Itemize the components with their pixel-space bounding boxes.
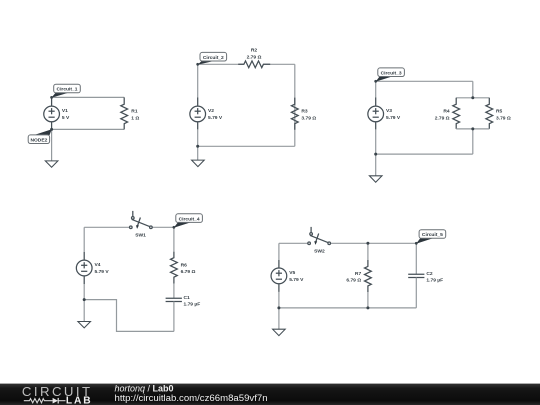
svg-text:Circuit_5: Circuit_5 bbox=[422, 232, 443, 238]
svg-text:NODE2: NODE2 bbox=[30, 137, 47, 143]
resistor R1 bbox=[121, 97, 128, 129]
resistor R5 bbox=[486, 98, 493, 129]
wire top rail circuit 3 bbox=[376, 80, 473, 82]
node junction circuit4 top-right bbox=[173, 226, 176, 229]
C2 value label bbox=[426, 271, 443, 284]
V4 value label bbox=[95, 262, 110, 275]
wire C2 branch top circuit 5 bbox=[415, 243, 417, 274]
resistor R2 bbox=[238, 61, 270, 68]
node junction circuit5 bottom-left bbox=[277, 306, 280, 309]
svg-text:C2: C2 bbox=[426, 271, 433, 277]
SW1 label bbox=[135, 233, 146, 239]
ground circuit 1 bbox=[45, 129, 58, 167]
V3 value label bbox=[386, 108, 401, 121]
wire parallel top bar circuit 3 bbox=[456, 97, 489, 99]
svg-text:V1: V1 bbox=[62, 108, 68, 114]
svg-text:5 V: 5 V bbox=[62, 115, 70, 121]
node junction parallel top bbox=[471, 96, 474, 99]
capacitor C2 bbox=[408, 274, 424, 277]
svg-text:Circuit_3: Circuit_3 bbox=[381, 70, 402, 76]
node junction circuit3 top-left bbox=[374, 80, 377, 83]
svg-text:R4: R4 bbox=[443, 109, 450, 115]
CircuitLab logo schematic line with resistor and diode bbox=[24, 398, 66, 404]
voltage source V4 bbox=[76, 252, 92, 284]
voltage source V2 bbox=[190, 97, 206, 129]
switch SW1 bbox=[130, 211, 153, 229]
svg-text:V3: V3 bbox=[386, 108, 392, 114]
svg-text:3.79 Ω: 3.79 Ω bbox=[301, 116, 316, 122]
wire drop to parallel block circuit 3 bbox=[472, 81, 474, 98]
resistor R6 bbox=[171, 252, 178, 284]
node A junction circuit1 top bbox=[50, 96, 53, 99]
R2 value label bbox=[247, 47, 262, 60]
CircuitLab logo LAB text bbox=[66, 396, 93, 405]
ground circuit 2 bbox=[192, 146, 205, 166]
svg-text:SW2: SW2 bbox=[314, 249, 325, 255]
wire bottom route circuit 4 bbox=[84, 300, 174, 332]
svg-text:R5: R5 bbox=[496, 109, 503, 115]
svg-text:Circuit_4: Circuit_4 bbox=[179, 216, 200, 222]
node NODE2 junction dot bbox=[50, 128, 53, 131]
svg-text:6.79 Ω: 6.79 Ω bbox=[181, 269, 196, 275]
svg-text:V5: V5 bbox=[289, 270, 295, 276]
node flag Circuit_4 bbox=[174, 214, 203, 228]
wire left side circuit 3 bbox=[375, 81, 377, 154]
node flag Circuit_3 bbox=[376, 68, 405, 82]
wire top rail circuit 5 right bbox=[331, 242, 417, 244]
wire parallel block down circuit 3 bbox=[472, 129, 474, 154]
wire right branch circuit 4 bbox=[173, 227, 175, 251]
wire parallel bottom bar circuit 3 bbox=[456, 128, 489, 130]
wire bottom rail circuit 5 bbox=[279, 307, 416, 309]
svg-text:2.79 Ω: 2.79 Ω bbox=[247, 54, 262, 60]
footer url bbox=[115, 393, 268, 404]
resistor R4 bbox=[453, 98, 460, 129]
voltage source V5 bbox=[271, 260, 287, 292]
wire right side circuit 2 bbox=[294, 64, 296, 146]
svg-text:5.79 V: 5.79 V bbox=[95, 269, 110, 275]
svg-text:V2: V2 bbox=[208, 108, 214, 114]
svg-text:http://circuitlab.com/cz66m8a5: http://circuitlab.com/cz66m8a59vf7n bbox=[115, 393, 268, 404]
ground circuit 3 bbox=[369, 154, 382, 182]
svg-text:SW1: SW1 bbox=[135, 233, 146, 239]
node junction circuit5 top-right bbox=[415, 242, 418, 245]
wire bottom rail circuit 1 bbox=[52, 128, 125, 130]
svg-text:2.79 Ω: 2.79 Ω bbox=[435, 116, 450, 122]
node junction R7 top bbox=[366, 242, 369, 245]
svg-text:R2: R2 bbox=[251, 47, 258, 53]
node junction parallel bottom bbox=[471, 127, 474, 130]
svg-text:5.79 V: 5.79 V bbox=[208, 115, 223, 121]
SW2 label bbox=[314, 249, 325, 255]
node junction circuit3 bottom-left bbox=[374, 153, 377, 156]
node flag Circuit_2 bbox=[198, 52, 227, 64]
R3 value label bbox=[301, 109, 316, 122]
svg-text:1 Ω: 1 Ω bbox=[131, 116, 139, 122]
R6 value label bbox=[181, 262, 196, 275]
V5 value label bbox=[289, 270, 304, 283]
wire top rail circuit 4 left bbox=[84, 226, 129, 228]
svg-text:Circuit_2: Circuit_2 bbox=[203, 55, 224, 61]
CircuitLab logo wordmark bbox=[22, 384, 93, 399]
svg-text:5.79 V: 5.79 V bbox=[386, 115, 401, 121]
R7 value label bbox=[346, 271, 361, 284]
R1 value label bbox=[131, 109, 139, 122]
voltage source V3 bbox=[368, 97, 384, 129]
svg-text:C1: C1 bbox=[184, 295, 191, 301]
node junction circuit4 bottom-left bbox=[83, 298, 86, 301]
wire left side circuit 2 bbox=[197, 64, 199, 146]
svg-text:1.79 µF: 1.79 µF bbox=[184, 302, 201, 308]
resistor R3 bbox=[291, 98, 298, 130]
svg-text:3.79 Ω: 3.79 Ω bbox=[496, 116, 511, 122]
svg-text:R6: R6 bbox=[181, 262, 188, 268]
wire C1 down circuit 4 bbox=[173, 302, 175, 332]
wire R7 branch top circuit 5 bbox=[367, 243, 369, 260]
capacitor C1 bbox=[166, 298, 182, 301]
node flag Circuit_1 bbox=[51, 84, 80, 98]
node flag NODE2 bbox=[28, 129, 52, 143]
footer bar bbox=[0, 384, 540, 405]
voltage source V1 bbox=[44, 97, 60, 129]
svg-text:1.79 µF: 1.79 µF bbox=[426, 278, 443, 284]
node junction R7 bottom bbox=[366, 306, 369, 309]
svg-text:Circuit_1: Circuit_1 bbox=[57, 87, 78, 93]
wire R7 bottom circuit 5 bbox=[367, 292, 369, 308]
R5 value label bbox=[496, 109, 511, 122]
wire top rail circuit 4 right bbox=[152, 226, 174, 228]
node junction circuit2 bottom-left bbox=[196, 145, 199, 148]
wire top rail circuit 5 left bbox=[279, 242, 308, 244]
wire left side circuit 4 bbox=[83, 227, 85, 299]
ground circuit 4 bbox=[78, 300, 91, 328]
wire top rail circuit 2 right bbox=[263, 63, 294, 65]
node flag Circuit_5 bbox=[416, 230, 446, 244]
resistor R7 bbox=[365, 260, 372, 292]
svg-text:R3: R3 bbox=[301, 109, 308, 115]
ground circuit 5 bbox=[273, 308, 286, 336]
V1 value label bbox=[62, 108, 70, 121]
wire C2 bottom circuit 5 bbox=[415, 278, 417, 308]
svg-text:6.79 Ω: 6.79 Ω bbox=[346, 278, 361, 284]
footer username and title bbox=[115, 383, 174, 393]
svg-text:R7: R7 bbox=[355, 271, 362, 277]
wire R6 to C1 bbox=[173, 284, 175, 299]
wire top rail circuit 1 bbox=[52, 96, 125, 98]
svg-text:5.79 V: 5.79 V bbox=[289, 277, 304, 283]
C1 value label bbox=[184, 295, 201, 308]
svg-text:V4: V4 bbox=[95, 262, 101, 268]
wire bottom rail circuit 2 bbox=[198, 145, 295, 147]
R4 value label bbox=[435, 109, 450, 122]
wire left side circuit 5 bbox=[278, 243, 280, 308]
switch SW2 bbox=[308, 227, 331, 245]
svg-text:R1: R1 bbox=[131, 109, 138, 115]
V2 value label bbox=[208, 108, 223, 121]
node junction circuit2 top-left bbox=[196, 63, 199, 66]
svg-text:LAB: LAB bbox=[66, 396, 93, 405]
svg-text:hortonq / Lab0: hortonq / Lab0 bbox=[115, 383, 174, 393]
wire top rail circuit 2 left bbox=[198, 63, 244, 65]
wire bottom rail circuit 3 bbox=[376, 153, 473, 155]
